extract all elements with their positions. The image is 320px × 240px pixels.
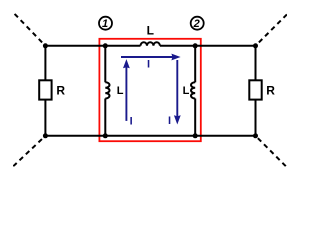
svg-text:R: R [266,84,275,98]
svg-text:1: 1 [102,18,108,30]
svg-text:I: I [130,116,133,128]
svg-text:I: I [147,59,150,71]
svg-text:L: L [183,85,190,97]
svg-text:2: 2 [193,18,200,30]
svg-text:L: L [117,85,124,97]
svg-text:R: R [56,84,65,98]
svg-text:I: I [168,115,171,127]
svg-text:L: L [147,23,154,37]
